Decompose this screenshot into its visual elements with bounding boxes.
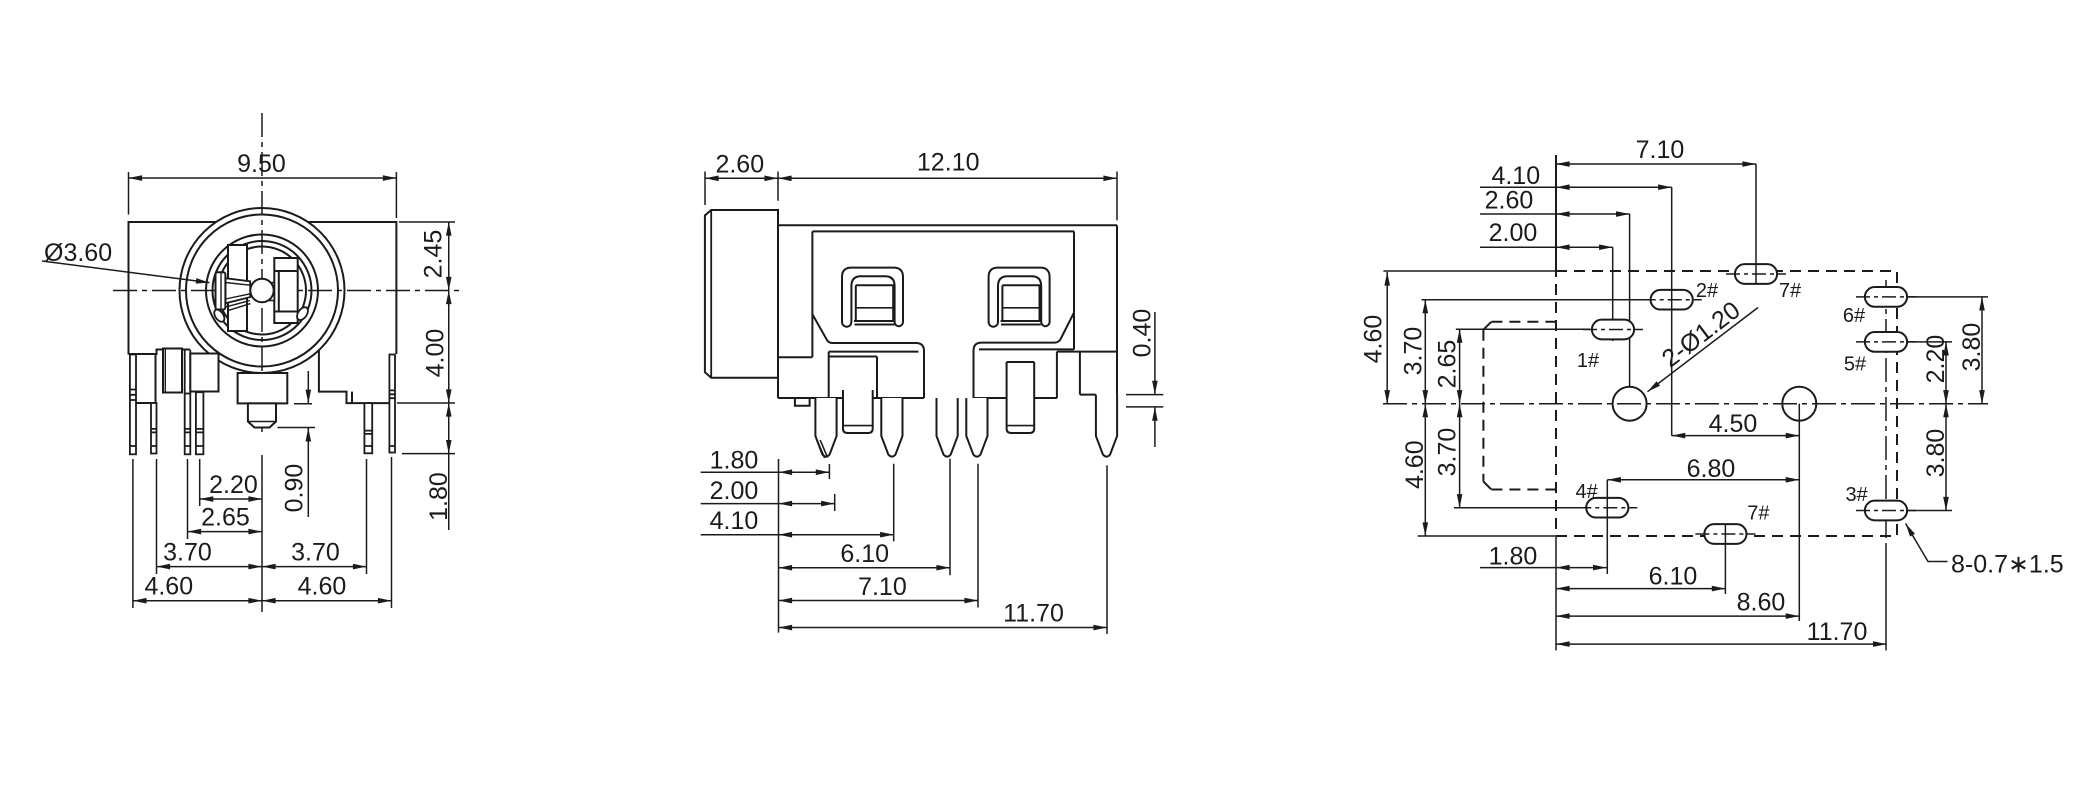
latch window right square [1001, 285, 1042, 324]
pin P1 [130, 355, 136, 455]
svg-text:7.10: 7.10 [1636, 136, 1685, 164]
left contact spring [225, 278, 250, 303]
pin A inner taper lines [817, 440, 828, 458]
latch window left square line [856, 307, 893, 309]
svg-text:6.10: 6.10 [1649, 563, 1698, 591]
svg-text:4.00: 4.00 [422, 329, 450, 378]
lug block A [136, 354, 156, 403]
svg-text:1.80: 1.80 [425, 472, 453, 521]
leader 8-0.7x1.5 [1906, 524, 1948, 562]
lug hole right [295, 305, 310, 322]
row extension lines left [1383, 271, 1648, 536]
pad 5# [1856, 332, 1916, 352]
right contact tab [268, 283, 274, 301]
stub G holder step [1007, 362, 1035, 390]
svg-text:7#: 7# [1747, 503, 1770, 525]
svg-text:4.60: 4.60 [144, 573, 193, 601]
centerline horizontal [1383, 403, 1988, 405]
svg-text:5#: 5# [1844, 354, 1867, 376]
part outline dashed rect [1556, 271, 1897, 536]
latch window right frame [989, 268, 1050, 327]
svg-text:1.80: 1.80 [1489, 543, 1538, 571]
extension line pad1 [1612, 247, 1614, 341]
svg-text:3.70: 3.70 [1400, 327, 1428, 376]
svg-text:4.60: 4.60 [1360, 315, 1388, 364]
datum line top [1555, 155, 1557, 271]
center pin [248, 403, 276, 427]
dimension 8.60 [1556, 615, 1799, 617]
pin P5 [364, 403, 372, 453]
pad 3# [1856, 501, 1916, 521]
svg-text:6#: 6# [1843, 305, 1866, 327]
dimension 2.60 [1480, 213, 1630, 215]
dimension 1.80 [1480, 567, 1607, 569]
extension line hole2 [1798, 404, 1800, 621]
front cap [705, 210, 778, 378]
datum extension line [778, 459, 780, 633]
svg-text:3.70: 3.70 [163, 539, 212, 567]
dimension 11.70 [1556, 643, 1887, 645]
cap/body boundary line [777, 210, 779, 398]
dimension 2.60 [705, 172, 778, 206]
dimension 11.70 [779, 465, 1108, 634]
pad 7# bottom [1695, 524, 1755, 544]
stub F band line [843, 425, 873, 427]
svg-text:4.50: 4.50 [1709, 410, 1758, 438]
svg-text:4.60: 4.60 [298, 573, 347, 601]
hole 1 [1613, 387, 1647, 421]
dimension 4.60 left [133, 600, 262, 602]
barrel inner circle [186, 215, 338, 367]
dimension 2.45 [399, 222, 455, 291]
center bushing block [238, 373, 288, 403]
body bottom right profile [319, 351, 389, 404]
pad 4# [1577, 498, 1637, 518]
svg-text:2.20: 2.20 [1922, 335, 1950, 384]
dimension 6.80 [1607, 479, 1799, 481]
pad 6# [1856, 287, 1916, 307]
dimension 4.00 [397, 291, 455, 404]
leader 2-O1.20 [1648, 308, 1759, 392]
svg-text:4.60: 4.60 [1401, 440, 1429, 489]
latch window left square [854, 285, 895, 324]
center pin circle [250, 279, 273, 302]
pin D [966, 398, 987, 457]
pin P6 [389, 355, 395, 453]
svg-text:Ø3.60: Ø3.60 [44, 239, 112, 267]
socket bore circle [218, 247, 306, 335]
svg-text:8-0.7∗1.5: 8-0.7∗1.5 [1951, 551, 2064, 579]
bottom notch [795, 398, 810, 406]
svg-text:2.00: 2.00 [710, 477, 759, 505]
block B [163, 349, 182, 393]
dimension 4.60 right [262, 600, 392, 602]
body inner bottom right shelf [974, 343, 1074, 398]
dimension 4.60 bottom [1424, 404, 1426, 536]
pin P3 upper shaft [185, 350, 191, 394]
cap tangent edge [710, 210, 712, 378]
svg-text:2.00: 2.00 [1489, 219, 1538, 247]
svg-text:12.10: 12.10 [917, 149, 980, 177]
dimension 3.80 top [1981, 297, 1983, 404]
dimension 3.70 left [157, 566, 263, 568]
latch window right square line [1002, 307, 1039, 309]
stub G band line [1007, 425, 1035, 427]
dimension 1.80 [701, 464, 830, 479]
extension line pad7 bottom [1724, 544, 1726, 594]
spring lower arm [226, 301, 250, 311]
body top edge [778, 224, 1117, 226]
svg-text:0.40: 0.40 [1129, 309, 1157, 358]
dimension 6.10 [779, 459, 951, 576]
left contact slot [228, 245, 247, 331]
dimension 3.70 top [1424, 300, 1426, 404]
dimension 4.60 top [1386, 272, 1388, 404]
dimension 7.10 [779, 464, 979, 608]
pin B [881, 398, 902, 457]
pin A [815, 398, 836, 457]
body inner bottom left shelf [829, 343, 924, 398]
RIGHT VIEW [1360, 136, 2064, 651]
pin C [937, 398, 958, 457]
svg-text:1.80: 1.80 [710, 446, 759, 474]
pad 2# [1642, 290, 1702, 310]
svg-text:2.65: 2.65 [201, 504, 250, 532]
pad 7# top [1726, 264, 1786, 284]
stub pin G [1007, 390, 1035, 433]
LEFT VIEW [42, 113, 462, 612]
svg-text:11.70: 11.70 [1003, 600, 1064, 628]
svg-text:2#: 2# [1696, 280, 1719, 302]
dimension 9.50 [129, 172, 397, 218]
dimension 4.50 [1672, 435, 1800, 437]
svg-text:0.90: 0.90 [281, 464, 309, 513]
dimension 4.10 [701, 464, 894, 542]
dimension 0.40 [1126, 312, 1163, 447]
centerline horizontal [113, 290, 462, 292]
center pin chamfer line [248, 421, 276, 423]
dimension 2.00 [701, 494, 835, 511]
body inner top line [812, 230, 1074, 232]
extension line pad3 [1885, 548, 1887, 651]
pin P4 [196, 392, 204, 454]
svg-text:8.60: 8.60 [1737, 589, 1786, 617]
dimension 1.80 [402, 403, 455, 530]
extension line hole1 [1629, 214, 1631, 387]
leader O3.60 [42, 261, 210, 283]
block B inner line [164, 349, 166, 393]
svg-text:2.65: 2.65 [1434, 340, 1462, 389]
centerline vertical [261, 113, 263, 432]
svg-text:1#: 1# [1577, 350, 1600, 372]
body bottom edge [778, 397, 1057, 399]
dimension 2.20 [1945, 342, 1947, 404]
svg-text:3.80: 3.80 [1922, 429, 1950, 478]
right contact slot [274, 258, 297, 323]
svg-text:6.80: 6.80 [1687, 455, 1736, 483]
extension line pad4 [1606, 480, 1608, 574]
dimension 3.70 right [262, 566, 367, 568]
svg-text:9.50: 9.50 [237, 150, 286, 178]
pin A holder step [829, 357, 877, 399]
connector body outline [129, 222, 397, 355]
row extension lines right [1907, 297, 1988, 511]
left contact bar [216, 272, 226, 309]
svg-text:3#: 3# [1845, 484, 1868, 506]
pin P3 [185, 394, 191, 455]
svg-text:11.70: 11.70 [1807, 618, 1868, 646]
body bottom-left profile [129, 350, 219, 362]
MIDDLE VIEW [701, 149, 1164, 635]
pin extension lines [133, 455, 392, 612]
body inner right bevel [1055, 313, 1074, 343]
svg-text:6.10: 6.10 [840, 540, 889, 568]
socket face ring outer [206, 235, 318, 347]
block C [190, 354, 218, 392]
dimension 2.65 [1459, 329, 1461, 404]
dimension 12.10 [778, 172, 1117, 221]
dimension 2.20 [200, 498, 262, 500]
svg-text:4.10: 4.10 [710, 507, 759, 535]
right step block [1057, 352, 1117, 398]
dimension 2.65 [188, 531, 263, 533]
hole 2 [1782, 387, 1816, 421]
svg-text:3.70: 3.70 [1434, 428, 1462, 477]
left contact bar inner line [220, 272, 222, 309]
svg-text:2.60: 2.60 [715, 151, 764, 179]
body inner left bevel [813, 315, 833, 343]
pad 1# [1583, 320, 1643, 340]
datum line bottom [1555, 537, 1557, 651]
lug hole left [212, 308, 226, 324]
latch window left frame [842, 268, 903, 327]
right contact inner lines [274, 271, 297, 312]
svg-text:3.70: 3.70 [291, 539, 340, 567]
dimension 4.10 [1480, 186, 1672, 188]
stub pin F [843, 390, 873, 433]
svg-text:7#: 7# [1779, 280, 1802, 302]
socket face ring inner [213, 241, 312, 340]
pin P2 [151, 403, 157, 454]
svg-text:4#: 4# [1575, 481, 1598, 503]
extension line pad7 top [1755, 164, 1757, 284]
svg-text:2.60: 2.60 [1485, 187, 1534, 215]
body inner right wall [1073, 231, 1075, 349]
dimension 6.10 [1556, 588, 1725, 590]
dimension 3.80 bottom [1945, 404, 1947, 511]
cap hidden outline [1483, 322, 1556, 490]
dimension 7.10 [1556, 163, 1756, 165]
pin E [1096, 395, 1117, 457]
body right edge [1116, 225, 1118, 437]
svg-text:2.45: 2.45 [420, 230, 448, 279]
svg-text:7.10: 7.10 [858, 573, 907, 601]
extension line pad2 [1671, 187, 1673, 435]
pad column centerline vertical [1885, 280, 1887, 548]
svg-text:2.20: 2.20 [209, 471, 258, 499]
dimension 3.70 bottom [1459, 404, 1461, 508]
outer barrel circle [180, 208, 345, 373]
dimension 0.90 [278, 371, 316, 517]
spring inner lines [225, 283, 250, 300]
body inner left wall [778, 231, 812, 357]
svg-text:3.80: 3.80 [1958, 323, 1986, 372]
dimension 2.00 [1480, 246, 1613, 248]
